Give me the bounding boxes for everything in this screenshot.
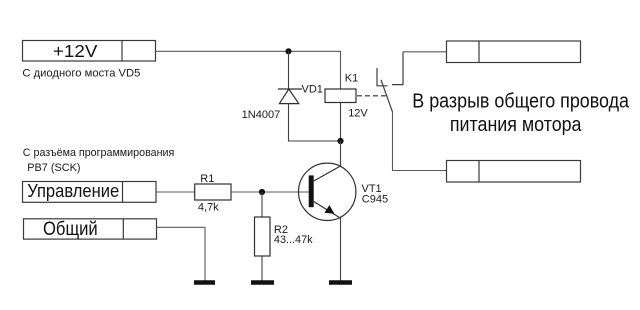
node: junction below relay	[337, 138, 343, 144]
svg-text:+12V: +12V	[53, 41, 98, 61]
svg-text:C945: C945	[362, 193, 388, 205]
svg-text:PB7 (SCK): PB7 (SCK)	[27, 162, 80, 174]
svg-text:43...47k: 43...47k	[274, 234, 313, 246]
node: junction at diode branch	[285, 48, 291, 54]
relay coil K1	[325, 89, 356, 103]
transistor VT1	[299, 163, 356, 220]
wire: top rail down to relay	[340, 51, 342, 89]
wire: contact to upper box	[403, 51, 447, 53]
node: junction at R2	[259, 189, 265, 195]
connector box upper right	[447, 41, 581, 63]
svg-text:Общий: Общий	[43, 219, 98, 240]
svg-text:1N4007: 1N4007	[242, 109, 281, 121]
wire: Управление to R1	[156, 191, 195, 193]
wire: contact blade to lower box	[393, 112, 447, 171]
wire: junction to collector	[340, 141, 342, 166]
wire: junction down to diode cathode	[288, 51, 290, 89]
svg-text:4,7k: 4,7k	[198, 201, 219, 213]
svg-text:С диодного моста VD5: С диодного моста VD5	[22, 68, 140, 80]
connector box Общий	[24, 219, 157, 239]
svg-text:12V: 12V	[348, 107, 368, 119]
resistor R2	[255, 217, 271, 256]
wire: diode anode down and right to junction	[289, 104, 341, 142]
wire: R1 to transistor base	[231, 191, 309, 193]
connector box +12V	[23, 41, 156, 62]
wire: Общий to ground	[157, 227, 206, 280]
wire: R2 to ground	[261, 256, 263, 281]
wire: relay bottom to junction	[340, 103, 342, 142]
ground (emitter)	[329, 280, 352, 285]
ground (R2)	[251, 280, 274, 285]
dashed link: relay to contact	[357, 95, 386, 97]
svg-text:R1: R1	[200, 173, 214, 185]
resistor R1	[195, 184, 231, 200]
svg-text:Управление: Управление	[27, 180, 119, 201]
wire: emitter to ground	[340, 218, 342, 281]
ground (Общий)	[194, 280, 215, 285]
wire: +12V box to top rail corner	[156, 50, 342, 52]
svg-text:VD1: VD1	[302, 83, 323, 95]
relay contact K1.1	[377, 52, 403, 112]
diode VD1 1N4007	[278, 89, 302, 104]
svg-text:В разрыв общего провода: В разрыв общего провода	[412, 89, 629, 112]
svg-text:K1: K1	[345, 72, 358, 84]
wire: junction down to R2	[261, 192, 263, 217]
svg-text:С разъёма программирования: С разъёма программирования	[23, 147, 175, 159]
svg-text:питания мотора: питания мотора	[450, 113, 582, 136]
connector box lower right	[447, 161, 581, 183]
connector box Управление	[23, 182, 157, 203]
